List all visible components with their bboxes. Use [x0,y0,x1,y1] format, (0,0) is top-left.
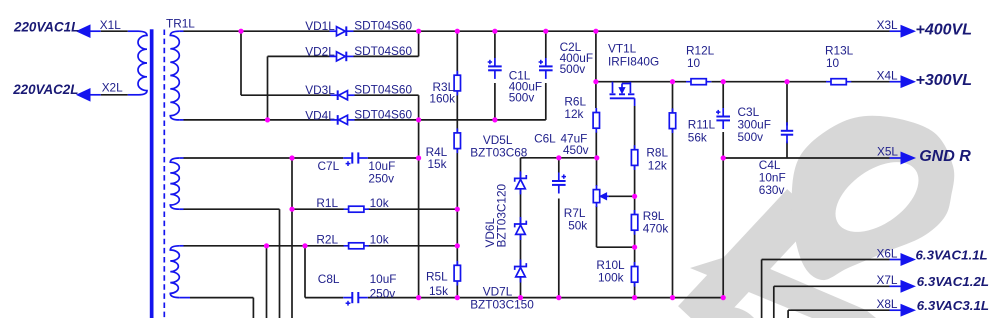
svg-text:220VAC2L: 220VAC2L [12,82,78,97]
svg-text:+400VL: +400VL [916,21,972,38]
svg-text:15k: 15k [428,157,447,171]
svg-text:VD7L: VD7L [483,284,513,298]
svg-text:6.3VAC1.2L: 6.3VAC1.2L [917,274,989,289]
svg-text:6.3VAC1.1L: 6.3VAC1.1L [916,247,988,262]
svg-text:15k: 15k [429,284,448,298]
svg-text:50k: 50k [568,219,587,233]
svg-text:X6L: X6L [877,246,898,260]
svg-text:R2L: R2L [316,232,338,246]
svg-text:500v: 500v [738,130,764,144]
svg-text:10k: 10k [370,196,389,210]
svg-text:BZT03C120: BZT03C120 [495,183,509,247]
svg-text:10: 10 [826,56,840,70]
svg-text:X4L: X4L [877,68,898,82]
svg-text:BZT03C68: BZT03C68 [470,145,527,159]
svg-text:SDT04S60: SDT04S60 [354,44,412,58]
svg-text:X8L: X8L [877,297,898,311]
svg-text:SDT04S60: SDT04S60 [354,19,412,33]
svg-text:12k: 12k [648,158,667,172]
svg-text:X7L: X7L [877,273,898,287]
svg-text:R5L: R5L [426,270,448,284]
svg-text:X3L: X3L [877,18,898,32]
svg-text:250v: 250v [368,171,394,185]
svg-text:R1L: R1L [316,196,338,210]
svg-text:10uF: 10uF [370,272,397,286]
svg-text:VT1L: VT1L [608,41,637,55]
svg-text:470k: 470k [643,221,669,235]
svg-text:250v: 250v [370,287,396,301]
svg-text:C6L: C6L [534,132,556,146]
svg-text:10: 10 [687,56,701,70]
svg-text:VD1L: VD1L [305,19,335,33]
svg-text:C7L: C7L [318,159,340,173]
svg-text:C8L: C8L [318,272,340,286]
svg-text:X2L: X2L [102,80,123,94]
svg-text:10k: 10k [370,232,389,246]
svg-text:SDT04S60: SDT04S60 [354,82,412,96]
svg-text:160k: 160k [429,92,455,106]
svg-text:6.3VAC3.1L: 6.3VAC3.1L [917,298,989,313]
svg-text:VD4L: VD4L [305,108,335,122]
svg-text:VD3L: VD3L [305,83,335,97]
svg-text:TR1L: TR1L [166,17,195,31]
svg-text:X1L: X1L [100,18,121,32]
svg-text:220VAC1L: 220VAC1L [13,19,79,34]
svg-text:500v: 500v [509,91,535,105]
svg-text:100k: 100k [598,270,624,284]
svg-text:500v: 500v [560,62,586,76]
svg-text:12k: 12k [564,107,583,121]
svg-text:+300VL: +300VL [916,72,972,89]
svg-text:GND R: GND R [919,148,971,165]
svg-text:BZT03C150: BZT03C150 [470,298,534,312]
svg-text:450v: 450v [563,143,589,157]
svg-text:56k: 56k [688,130,707,144]
svg-text:630v: 630v [759,183,785,197]
svg-text:IRFI840G: IRFI840G [608,54,659,68]
svg-text:SDT04S60: SDT04S60 [354,108,412,122]
svg-text:X5L: X5L [877,145,898,159]
svg-text:VD2L: VD2L [305,45,335,59]
